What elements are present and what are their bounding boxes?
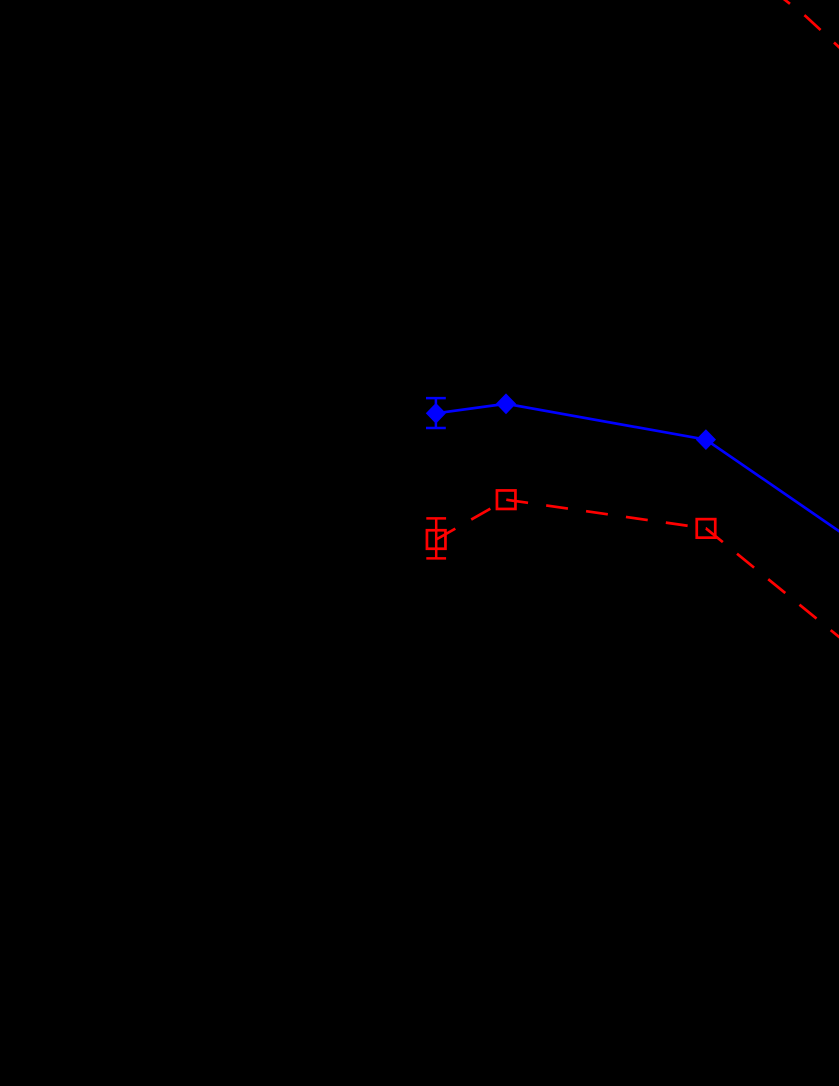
blue filled diamond marker P1 — [426, 403, 446, 424]
red error bar on P1: vertical stem — [435, 518, 438, 558]
blue error bar on P1: bottom cap — [426, 427, 446, 430]
blue solid series line P1-P2-P3-offscreen — [436, 404, 839, 547]
upper-right red dashed curve segment (enters frame at top, exits right) — [780, 0, 839, 74]
red error bar on P1: bottom cap — [426, 557, 446, 560]
blue error bar on P1: vertical stem — [435, 398, 438, 428]
red open-square marker P3 — [697, 519, 716, 538]
red error bar on P1: top cap — [426, 517, 446, 520]
blue error bar on P1: top cap — [426, 397, 446, 400]
red dashed series line P1-P2-P3-offscreen — [436, 500, 839, 658]
blue filled diamond marker P3 — [696, 429, 716, 450]
red open-square marker P1 — [427, 530, 446, 549]
blue filled diamond marker P2 — [496, 393, 516, 414]
red open-square marker P2 — [497, 490, 516, 509]
